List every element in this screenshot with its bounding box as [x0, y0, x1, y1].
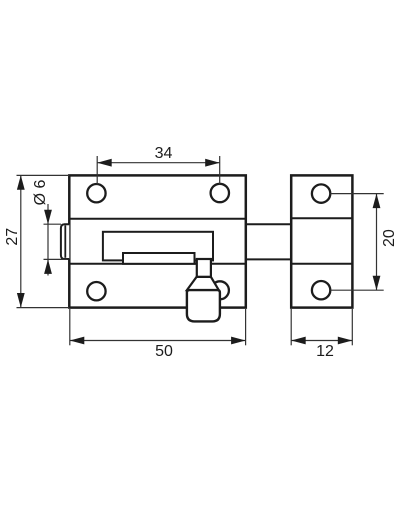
bolt end cap inner line	[64, 225, 66, 257]
knob body	[187, 290, 220, 321]
hole top-left	[87, 184, 105, 202]
bolt end cap (left)	[61, 224, 69, 259]
dim 20 extension line top	[330, 193, 384, 195]
svg-text:Ø 6: Ø 6	[32, 180, 49, 206]
keeper channel bottom line	[291, 263, 352, 265]
keeper channel top line	[291, 217, 352, 219]
right keeper plate	[291, 175, 352, 307]
dim 50 line	[70, 340, 246, 342]
dim 27 line	[20, 175, 22, 307]
hole bottom-right (partly hidden by knob)	[211, 281, 229, 299]
dim 50 extension line right	[245, 309, 247, 345]
knob flare	[187, 277, 219, 290]
dim 50 extension line left	[69, 309, 71, 345]
dim 27 arrow bottom	[17, 293, 25, 308]
dim 34 arrow right	[205, 159, 220, 167]
dim dia6 arrow bottom	[44, 259, 52, 274]
cutout window	[103, 232, 213, 261]
dim dia6 extension line bottom	[44, 258, 68, 260]
dim 20 line	[376, 194, 378, 291]
keeper hole top	[312, 184, 330, 202]
dim dia6 extension line top	[44, 223, 62, 225]
svg-text:12: 12	[316, 343, 334, 360]
dim 50 arrow left	[70, 337, 85, 345]
dim dia6 line	[47, 204, 49, 276]
slide bar	[123, 253, 195, 264]
barrel channel top line (main plate)	[69, 218, 246, 220]
dim 34 line	[97, 162, 220, 164]
svg-text:34: 34	[155, 145, 173, 162]
dim 12 extension line right	[351, 309, 353, 345]
hole bottom-left	[87, 282, 105, 300]
dim 34 extension line left	[96, 156, 98, 185]
dim 34 extension line right	[219, 156, 221, 185]
barrel channel bottom line (main plate)	[69, 263, 246, 265]
dim 20 arrow top	[373, 194, 381, 209]
dim 12 line	[291, 340, 352, 342]
bolt rod between plates	[246, 223, 291, 225]
dim 20 extension line bottom	[330, 289, 384, 291]
dim 27 extension line top	[17, 174, 70, 176]
keeper hole bottom	[312, 281, 330, 299]
dim 12 arrow left	[291, 337, 306, 345]
dim 20 arrow bottom	[373, 276, 381, 291]
dim 27 arrow top	[17, 175, 25, 190]
svg-text:27: 27	[4, 228, 21, 246]
main plate	[69, 175, 246, 307]
dim dia6 arrow top	[44, 210, 52, 225]
dim 12 extension line left	[290, 309, 292, 345]
svg-text:20: 20	[381, 229, 398, 247]
svg-text:50: 50	[155, 343, 173, 360]
dim 27 extension line bottom	[17, 307, 70, 309]
dim 12 arrow right	[338, 337, 353, 345]
hole top-right	[211, 184, 229, 202]
dim 50 arrow right	[231, 337, 246, 345]
dim 34 arrow left	[97, 159, 112, 167]
knob stem	[197, 259, 211, 277]
